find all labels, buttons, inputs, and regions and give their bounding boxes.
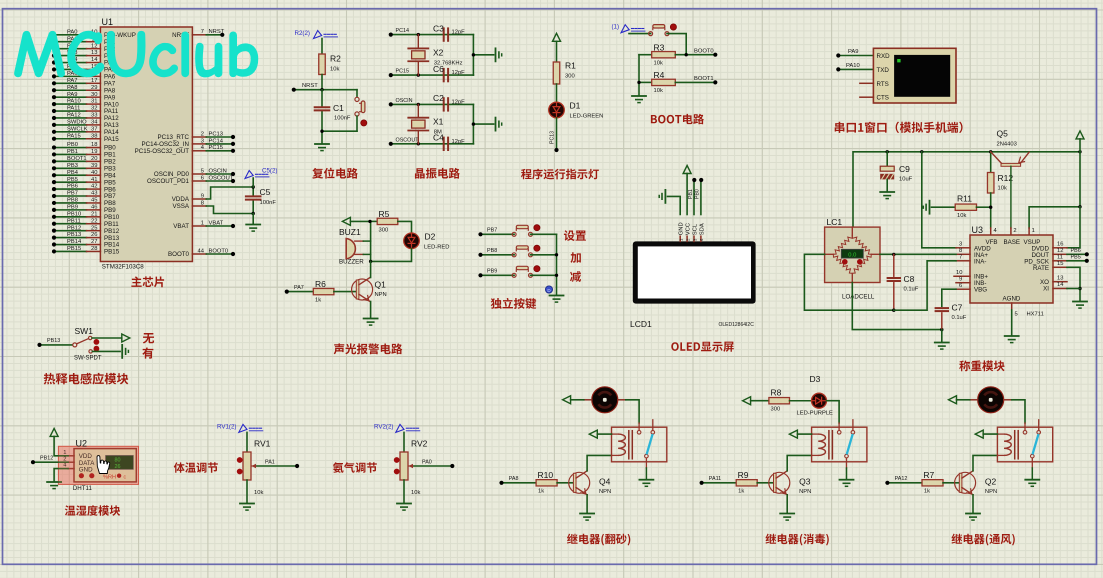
wire VDD to power arrow [50, 428, 68, 455]
svg-text:HX711: HX711 [1027, 312, 1044, 318]
caption 温湿度模块 [65, 505, 120, 516]
svg-text:PA15: PA15 [67, 133, 81, 139]
svg-text:BOOT0: BOOT0 [168, 251, 190, 258]
svg-text:BUZZER: BUZZER [339, 259, 364, 266]
wire R10 to Q4 base [557, 482, 573, 484]
svg-text:X2: X2 [433, 47, 444, 57]
capacitor C2 12pF [433, 93, 465, 110]
svg-text:(1): (1) [611, 24, 619, 31]
svg-text:NRST: NRST [302, 83, 318, 89]
coil power arrow [789, 430, 811, 438]
caption 体温调节 [174, 462, 218, 473]
wire SW1 top throw to power arrow [92, 334, 130, 342]
transistor Q3 NPN [769, 471, 812, 495]
svg-text:5: 5 [201, 168, 204, 174]
svg-text:PB0: PB0 [67, 142, 78, 148]
wire Q1 emitter to ground [370, 302, 372, 319]
svg-text:13: 13 [1057, 275, 1063, 281]
node PA8 wire [499, 476, 536, 485]
node PB0 wire (OLED SDA) [695, 178, 704, 215]
virtual terminal (serial window) [860, 48, 956, 103]
svg-text:C3: C3 [433, 23, 444, 33]
ground below C9 [880, 191, 894, 193]
svg-text:41: 41 [91, 177, 97, 183]
wire Q1 collector up [370, 261, 372, 277]
caption 无 [143, 333, 154, 344]
U1 pin VDDA (9) wire [172, 187, 253, 203]
svg-text:10k: 10k [957, 213, 966, 219]
svg-text:VBAT: VBAT [209, 220, 224, 226]
svg-text:37: 37 [91, 126, 97, 132]
load cell LC1 LOADCELL [825, 217, 880, 301]
node NRST wire [292, 83, 357, 92]
svg-text:13: 13 [91, 50, 97, 56]
svg-text:GND: GND [679, 222, 685, 235]
U3 pin 9 INB- stub [956, 276, 970, 282]
svg-text:OSCOUT: OSCOUT [396, 137, 420, 143]
svg-text:1k: 1k [315, 298, 321, 304]
wire R2 to NRST node [321, 75, 323, 90]
U2 pin stubs 1,2,4 [63, 450, 74, 469]
power arrow to motor [949, 396, 970, 404]
svg-text:D2: D2 [425, 232, 436, 242]
ground below keys [550, 295, 564, 297]
rotated ground left of R11 [929, 201, 931, 214]
caption 声光报警电路 [334, 343, 403, 354]
svg-text:9: 9 [959, 276, 962, 282]
svg-text:RV1: RV1 [254, 439, 271, 449]
wire R6 to Q1 base [334, 291, 356, 293]
svg-text:2: 2 [201, 131, 204, 137]
caption 减 [570, 271, 581, 282]
svg-text:PA8: PA8 [509, 476, 519, 482]
svg-text:C9: C9 [899, 164, 910, 174]
LED D3 LED-PURPLE [797, 374, 834, 417]
capacitor C6 12pF [433, 64, 465, 81]
svg-text:300: 300 [565, 74, 575, 80]
caption 设置 [564, 230, 586, 241]
svg-text:PC13: PC13 [550, 131, 556, 144]
svg-text:PB8: PB8 [487, 248, 497, 254]
keys common rail wire [555, 234, 558, 295]
svg-text:3: 3 [201, 138, 204, 144]
svg-text:PB7: PB7 [67, 191, 78, 197]
resistor R1 300 [553, 61, 576, 85]
voltage probe (1) [611, 24, 645, 33]
svg-text:27: 27 [91, 239, 97, 245]
U1 pin OSCIN_PD0 (5), node OSCIN [154, 168, 235, 178]
svg-text:PB1: PB1 [688, 189, 694, 199]
wire to ground below C7 [941, 330, 943, 342]
power arrow left (alarm) [342, 217, 370, 225]
svg-text:28: 28 [91, 246, 97, 252]
svg-text:BOOT0: BOOT0 [694, 48, 714, 54]
node PA1 wire from RV1 wiper [257, 459, 299, 468]
push button PB9 [512, 266, 540, 278]
svg-text:STM32F103C8: STM32F103C8 [102, 263, 145, 270]
wire R7 to Q2 base [943, 482, 959, 484]
wire relay common contact to ground [1031, 458, 1033, 479]
U1 pin OSCOUT_PD1 (6), node OSCOUT [147, 175, 235, 185]
rotated ground (crystal) [495, 118, 497, 131]
svg-text:2N4403: 2N4403 [997, 142, 1017, 148]
svg-text:PA1: PA1 [265, 459, 275, 465]
ground below relay [840, 479, 854, 481]
U1 pin VBAT (1), node VBAT [173, 220, 235, 230]
wire LC1 left vertex to bottom net [804, 254, 893, 310]
svg-text:1: 1 [1032, 228, 1035, 234]
svg-text:32: 32 [91, 106, 97, 112]
node PB13 wire [37, 338, 72, 347]
svg-text:OSCOUT_PD1: OSCOUT_PD1 [147, 178, 190, 185]
capacitor C4 12pF [433, 133, 465, 150]
svg-text:PB1: PB1 [67, 149, 78, 155]
wire C5 to ground [252, 214, 254, 225]
U1 pin PA1 (11) wire [52, 36, 116, 46]
svg-text:7: 7 [959, 254, 962, 260]
caption 继电器(消毒) [765, 534, 828, 546]
wire motor to relay contact [1012, 400, 1025, 431]
svg-text:C8: C8 [904, 274, 915, 284]
svg-text:Q5: Q5 [997, 129, 1009, 139]
svg-text:1k: 1k [738, 489, 744, 495]
svg-text:R10: R10 [538, 470, 554, 480]
svg-text:43: 43 [91, 191, 97, 197]
svg-text:R6: R6 [315, 279, 326, 289]
svg-text:RXD: RXD [877, 53, 891, 60]
svg-text:RATE: RATE [1033, 265, 1049, 272]
ground below C5 [246, 224, 260, 226]
U1 pin PA7 (17) wire [52, 78, 116, 88]
svg-text:RTS: RTS [877, 81, 889, 88]
svg-text:20: 20 [91, 156, 97, 162]
transistor Q5 2N4403 (PNP) [991, 129, 1029, 236]
U1 pin BOOT1 (20) wire [52, 156, 116, 166]
svg-text:SWDIO: SWDIO [67, 119, 87, 125]
U3 pin 10 INB+ stub [954, 270, 970, 276]
ground below Q4 [580, 513, 594, 515]
push button PB7 [512, 225, 540, 237]
svg-text:8: 8 [201, 200, 204, 206]
svg-text:22: 22 [91, 218, 97, 224]
svg-text:PA15: PA15 [104, 136, 119, 143]
caption 主芯片 [131, 276, 164, 287]
ground below Q1 [364, 318, 378, 320]
svg-text:NRST: NRST [209, 29, 225, 35]
svg-text:PB10: PB10 [67, 211, 81, 217]
svg-text:BASE: BASE [1004, 239, 1021, 246]
OLED pin GND [679, 222, 685, 241]
svg-text:AGND: AGND [1003, 296, 1021, 303]
svg-text:31: 31 [91, 99, 97, 105]
U1 pin PB1 (19) wire [52, 149, 116, 159]
resistor R11 10k [932, 194, 991, 220]
crystal X2 32.768KHz [408, 35, 462, 76]
svg-text:NPN: NPN [375, 292, 387, 298]
svg-text:Q4: Q4 [599, 476, 611, 486]
U1 pin PB9 (46) wire [52, 204, 116, 214]
wire button PB7 to rail [531, 233, 557, 235]
wire R5 to D2 [398, 221, 412, 233]
wire R1 to D1 [556, 84, 558, 102]
wire LC1 bottom to ground net [852, 274, 943, 332]
resistor R10 1k [536, 470, 557, 495]
svg-text:PB4: PB4 [67, 170, 79, 176]
transistor Q2 NPN [955, 471, 998, 495]
ground right of U3 [1073, 301, 1087, 303]
U1 pin PA10 (31) wire [52, 99, 119, 109]
U1 pin PB3 (39) wire [52, 163, 116, 173]
blue probe marker on keys rail [545, 286, 552, 293]
wire bottom net to INA- [894, 261, 956, 310]
svg-text:PA8: PA8 [67, 85, 78, 91]
svg-text:OSCIN: OSCIN [209, 168, 227, 174]
transistor Q1 NPN [352, 278, 387, 302]
resistor R8 300 [769, 388, 790, 413]
svg-text:R5: R5 [379, 209, 390, 219]
U1 pin VSSA (8) wire [172, 200, 253, 213]
svg-text:PB12: PB12 [40, 456, 53, 462]
U1 pin PA11 (32) wire [52, 106, 119, 116]
resistor R7 1k [922, 470, 943, 495]
svg-text:100nF: 100nF [334, 116, 351, 122]
potentiometer RV1 10k [237, 432, 271, 496]
svg-text:10: 10 [956, 270, 962, 276]
IC U3 HX711 [970, 225, 1053, 303]
svg-text:16: 16 [1057, 241, 1063, 247]
svg-text:C1: C1 [333, 103, 344, 113]
svg-text:XI: XI [1043, 286, 1049, 293]
U1 pin PC14-OSC32_IN (3), node PC14 [142, 138, 236, 148]
push button PB8 [512, 245, 540, 257]
svg-text:PA12: PA12 [67, 113, 81, 119]
svg-text:CTS: CTS [877, 95, 889, 102]
node PA7 wire [285, 285, 314, 294]
svg-text:PB13: PB13 [47, 338, 60, 344]
svg-text:R9: R9 [738, 470, 749, 480]
wire SW1 bottom throw to rotated ground [92, 345, 128, 358]
svg-text:VBG: VBG [974, 287, 987, 294]
transistor Q4 NPN [569, 471, 612, 495]
U1 pin PA9 (30) wire [52, 92, 116, 102]
U3 pin 12 DOUT wire, node PB6 [1053, 248, 1089, 257]
svg-text:42: 42 [91, 184, 97, 190]
svg-text:LCD1: LCD1 [630, 319, 652, 329]
svg-text:NPN: NPN [599, 489, 611, 495]
U1 pin PA0 (10) wire [52, 29, 136, 39]
svg-text:PC15: PC15 [209, 145, 224, 151]
svg-text:PC15: PC15 [396, 69, 410, 75]
svg-text:7: 7 [201, 29, 204, 35]
voltage probe RV1(2) [217, 424, 263, 433]
DHT11 sensor U2 [73, 439, 137, 492]
svg-text:PB8: PB8 [67, 198, 78, 204]
U1 pin NRST (7) wire, node NRST [172, 29, 225, 39]
svg-text:45: 45 [91, 198, 97, 204]
svg-text:5: 5 [1015, 312, 1018, 318]
svg-text:PB15: PB15 [104, 249, 120, 256]
resistor R2 10k [319, 39, 341, 75]
U1 pin BOOT0 (44), node BOOT0 [168, 248, 235, 258]
svg-text:Q3: Q3 [799, 476, 811, 486]
node BOOT0 wire [675, 48, 717, 57]
mouse cursor (hand pointer) over U2 [97, 456, 110, 474]
ground below Q3 [780, 513, 794, 515]
U1 pin PB10 (21) wire [52, 211, 120, 221]
wire Q4 emitter to ground [586, 495, 588, 513]
U1 pin PB11 (22) wire [52, 218, 119, 228]
svg-text:Q2: Q2 [985, 476, 997, 486]
resistor R6 1k [313, 279, 334, 304]
wire button PB9 to rail [531, 274, 557, 276]
svg-text:PB6: PB6 [1071, 248, 1081, 254]
svg-text:PA0: PA0 [422, 459, 432, 465]
capacitor C8 0.1uF [888, 255, 919, 312]
caption 称重模块 [959, 360, 1004, 371]
OLED pin SDA [699, 223, 705, 241]
U1 pin PC15-OSC32_OUT (4), node PC15 [135, 145, 235, 155]
node PB7 wire [478, 228, 514, 237]
svg-text:PB15: PB15 [67, 246, 81, 252]
crystal right rail wire [472, 104, 474, 143]
relay (coil + switch) [997, 420, 1052, 462]
caption 复位电路 [312, 168, 358, 179]
svg-text:OSCOUT: OSCOUT [209, 175, 234, 181]
svg-text:PB5: PB5 [67, 177, 78, 183]
svg-text:TXD: TXD [877, 67, 890, 74]
svg-text:PB14: PB14 [67, 239, 82, 245]
wire D2 to collector node [371, 249, 412, 262]
voltage probe RV2(2) [374, 424, 420, 433]
svg-text:C4: C4 [433, 133, 444, 143]
svg-text:3: 3 [959, 241, 962, 247]
svg-text:10k: 10k [411, 490, 420, 496]
svg-text:BOOT1: BOOT1 [67, 156, 87, 162]
svg-text:R4: R4 [654, 70, 665, 80]
rotated ground (crystal) [495, 48, 497, 61]
U1 pin SWCLK (37) wire [52, 126, 119, 136]
ground reset circuit [315, 143, 329, 145]
svg-text:PA10: PA10 [846, 63, 860, 69]
svg-text:12pF: 12pF [452, 30, 466, 36]
U3 pin 11 PD_SCK wire, node PB5 [1053, 254, 1089, 263]
node OSCIN wire top row [389, 98, 474, 107]
wire Q2 collector to relay coil [973, 455, 997, 470]
svg-text:PB5: PB5 [1071, 255, 1081, 261]
wire RV2 to ground [403, 480, 405, 503]
wire LC1 top to rail [851, 227, 853, 236]
svg-text:18: 18 [91, 142, 97, 148]
wire button PB8 to rail [531, 254, 557, 256]
voltage probe C5(2) [245, 168, 277, 188]
svg-text:C6: C6 [433, 64, 444, 74]
wire crystal rail to ground [472, 122, 494, 125]
wire Q4 collector to relay coil [587, 455, 611, 470]
capacitor C3 12pF [433, 23, 465, 40]
svg-text:40: 40 [91, 170, 97, 176]
crystal right rail wire [472, 35, 474, 76]
U3 pin 5 AGND wire to ground [1012, 303, 1044, 336]
svg-text:SW1: SW1 [75, 326, 94, 336]
svg-text:8: 8 [959, 248, 962, 254]
resistor R4 10k [639, 70, 675, 94]
svg-text:12pF: 12pF [452, 99, 466, 105]
ground below RV2 [397, 503, 411, 505]
svg-text:2: 2 [1013, 228, 1016, 234]
wire relay common contact to ground [645, 458, 647, 479]
U3 pin 13 XO stub [1053, 275, 1067, 281]
svg-text:LED-GREEN: LED-GREEN [570, 114, 604, 120]
svg-text:PB9: PB9 [67, 204, 78, 210]
svg-text:10k: 10k [998, 186, 1007, 192]
svg-text:NPN: NPN [985, 489, 997, 495]
svg-text:R2: R2 [330, 54, 341, 64]
reset push button [355, 90, 367, 132]
svg-text:VDDA: VDDA [172, 196, 190, 203]
node PA0 wire from RV2 wiper [414, 459, 454, 468]
wire button to BOOT0 net [667, 34, 686, 55]
relay (coil + switch) [612, 420, 667, 462]
svg-text:R2(2): R2(2) [295, 30, 310, 37]
ground below relay [1025, 479, 1039, 481]
caption 热释电感应模块 [44, 373, 129, 385]
svg-text:21: 21 [91, 211, 97, 217]
svg-text:PA7: PA7 [294, 285, 304, 291]
svg-text:0.1uF: 0.1uF [952, 315, 967, 321]
ground below U2 [47, 481, 61, 483]
svg-text:PC15-OSC32_OUT: PC15-OSC32_OUT [135, 148, 190, 155]
svg-text:PC13: PC13 [209, 131, 224, 137]
svg-text:0.0: 0.0 [848, 253, 856, 259]
capacitor C7 0.1uF [936, 289, 967, 329]
wire R9 to Q3 base [757, 482, 773, 484]
svg-text:LED-RED: LED-RED [424, 245, 449, 251]
svg-text:46: 46 [91, 204, 97, 210]
svg-text:PB3: PB3 [67, 163, 78, 169]
resistor R12 10k [987, 152, 1013, 207]
svg-text:RV2(2): RV2(2) [374, 424, 394, 431]
svg-text:PA9: PA9 [848, 49, 859, 55]
LED D2 LED-RED [404, 232, 450, 251]
svg-text:10k: 10k [254, 490, 263, 496]
wire D1 to PC13 terminal [550, 118, 559, 152]
svg-text:PB11: PB11 [67, 218, 81, 224]
svg-text:33: 33 [91, 113, 97, 119]
svg-text:11: 11 [1057, 254, 1063, 260]
svg-text:SWCLK: SWCLK [67, 126, 88, 132]
wire Q3 emitter to ground [786, 495, 788, 513]
caption 晶振电路 [415, 168, 460, 179]
wire D3 to relay contact [827, 401, 840, 431]
svg-text:C7: C7 [952, 303, 963, 313]
resistor R5 300 [370, 209, 398, 234]
capacitor C9 10uF (electrolytic) [880, 152, 912, 191]
node PC15 wire bottom row [389, 69, 474, 78]
caption 程序运行指示灯 [521, 169, 599, 180]
resistor R9 1k [736, 470, 757, 495]
caption 独立按键 [491, 298, 536, 309]
node PA11 wire [700, 476, 737, 485]
svg-text:14: 14 [1057, 282, 1064, 288]
node OSCOUT wire bottom row [389, 137, 474, 146]
node PC14 wire top row [389, 28, 474, 37]
wire Q2 emitter to ground [972, 495, 974, 513]
U1 pin PC13_RTC (2), node PC13 [157, 131, 235, 141]
svg-text:12: 12 [1057, 248, 1063, 254]
svg-text:R11: R11 [957, 194, 972, 204]
svg-text:14: 14 [91, 57, 98, 63]
node PB8 wire [478, 248, 514, 257]
